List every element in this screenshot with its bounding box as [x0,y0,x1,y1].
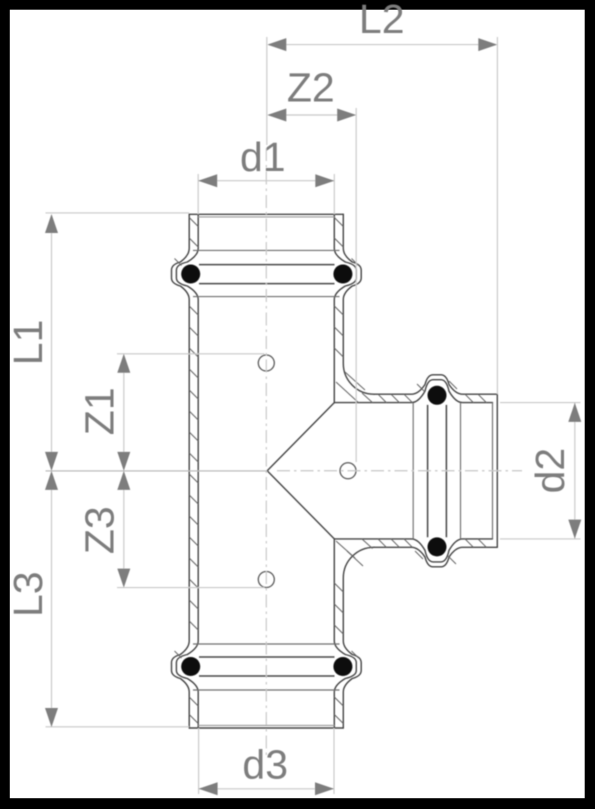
dimension d2 [568,403,581,539]
svg-text:L2: L2 [359,0,405,42]
tee body left inner wall [176,214,198,728]
svg-text:d2: d2 [527,448,573,494]
center extension line [46,470,268,472]
O-ring bottom right [333,657,352,676]
dimension Z1 [117,354,130,471]
O-ring top right [333,265,352,284]
svg-text:d3: d3 [242,742,288,788]
Z3 extension line [117,587,265,589]
bottom groove bound lines [193,644,340,690]
branch end face [493,394,498,547]
L2 extension line left [266,37,268,145]
dimension L1 [45,214,58,471]
branch groove bound lines [413,403,460,539]
inspection hole branch [340,463,356,479]
branch bottom inner wall [334,539,492,562]
svg-text:L1: L1 [5,320,51,366]
dimension L2 [267,38,497,51]
branch top inner wall [334,380,492,403]
O-ring branch top [428,386,447,405]
tee body right inner wall upper [334,214,356,402]
L3 extension line bottom [46,726,190,728]
Z2 extension line [355,108,357,462]
O-ring top left [181,265,200,284]
dimension d3 [199,782,334,795]
inspection hole upper [258,355,274,371]
tee body right inner wall lower [334,539,356,728]
tee body right outer wall lower [343,547,374,728]
svg-text:Z1: Z1 [77,387,123,435]
svg-text:Z3: Z3 [77,506,123,554]
L1 extension line top [46,212,190,214]
pipe top end face [189,214,343,217]
L2 extension line right [496,37,498,394]
svg-text:L3: L3 [5,571,51,617]
pipe bottom end face [189,725,343,728]
branch top outer wall [374,375,497,394]
dimension L3 [45,471,58,727]
bore cone line lower [267,471,334,539]
bore cone line upper [267,403,334,471]
top o-ring tangent lines [199,265,335,284]
section hatching [175,218,487,724]
top groove bound lines [193,250,340,296]
dimension Z3 [117,471,130,588]
inspection hole lower [258,572,274,588]
svg-text:d1: d1 [240,134,286,180]
svg-text:Z2: Z2 [287,65,335,111]
d3 extension lines [199,728,334,794]
d2 extension lines [500,403,581,539]
branch centerline [277,470,522,472]
Z1 extension line [117,353,265,355]
branch bottom outer wall [374,547,497,567]
tee body left outer wall [172,214,190,728]
pipe centerline [265,148,267,757]
O-ring bottom left [181,657,200,676]
bottom o-ring tangent lines [199,657,335,676]
branch o-ring tangent lines [428,405,447,537]
dimension Z2 [267,109,356,122]
O-ring branch bottom [428,537,447,556]
tee body right outer wall [343,214,374,394]
d1 extension lines [198,174,334,214]
dimension d1 [198,174,334,187]
